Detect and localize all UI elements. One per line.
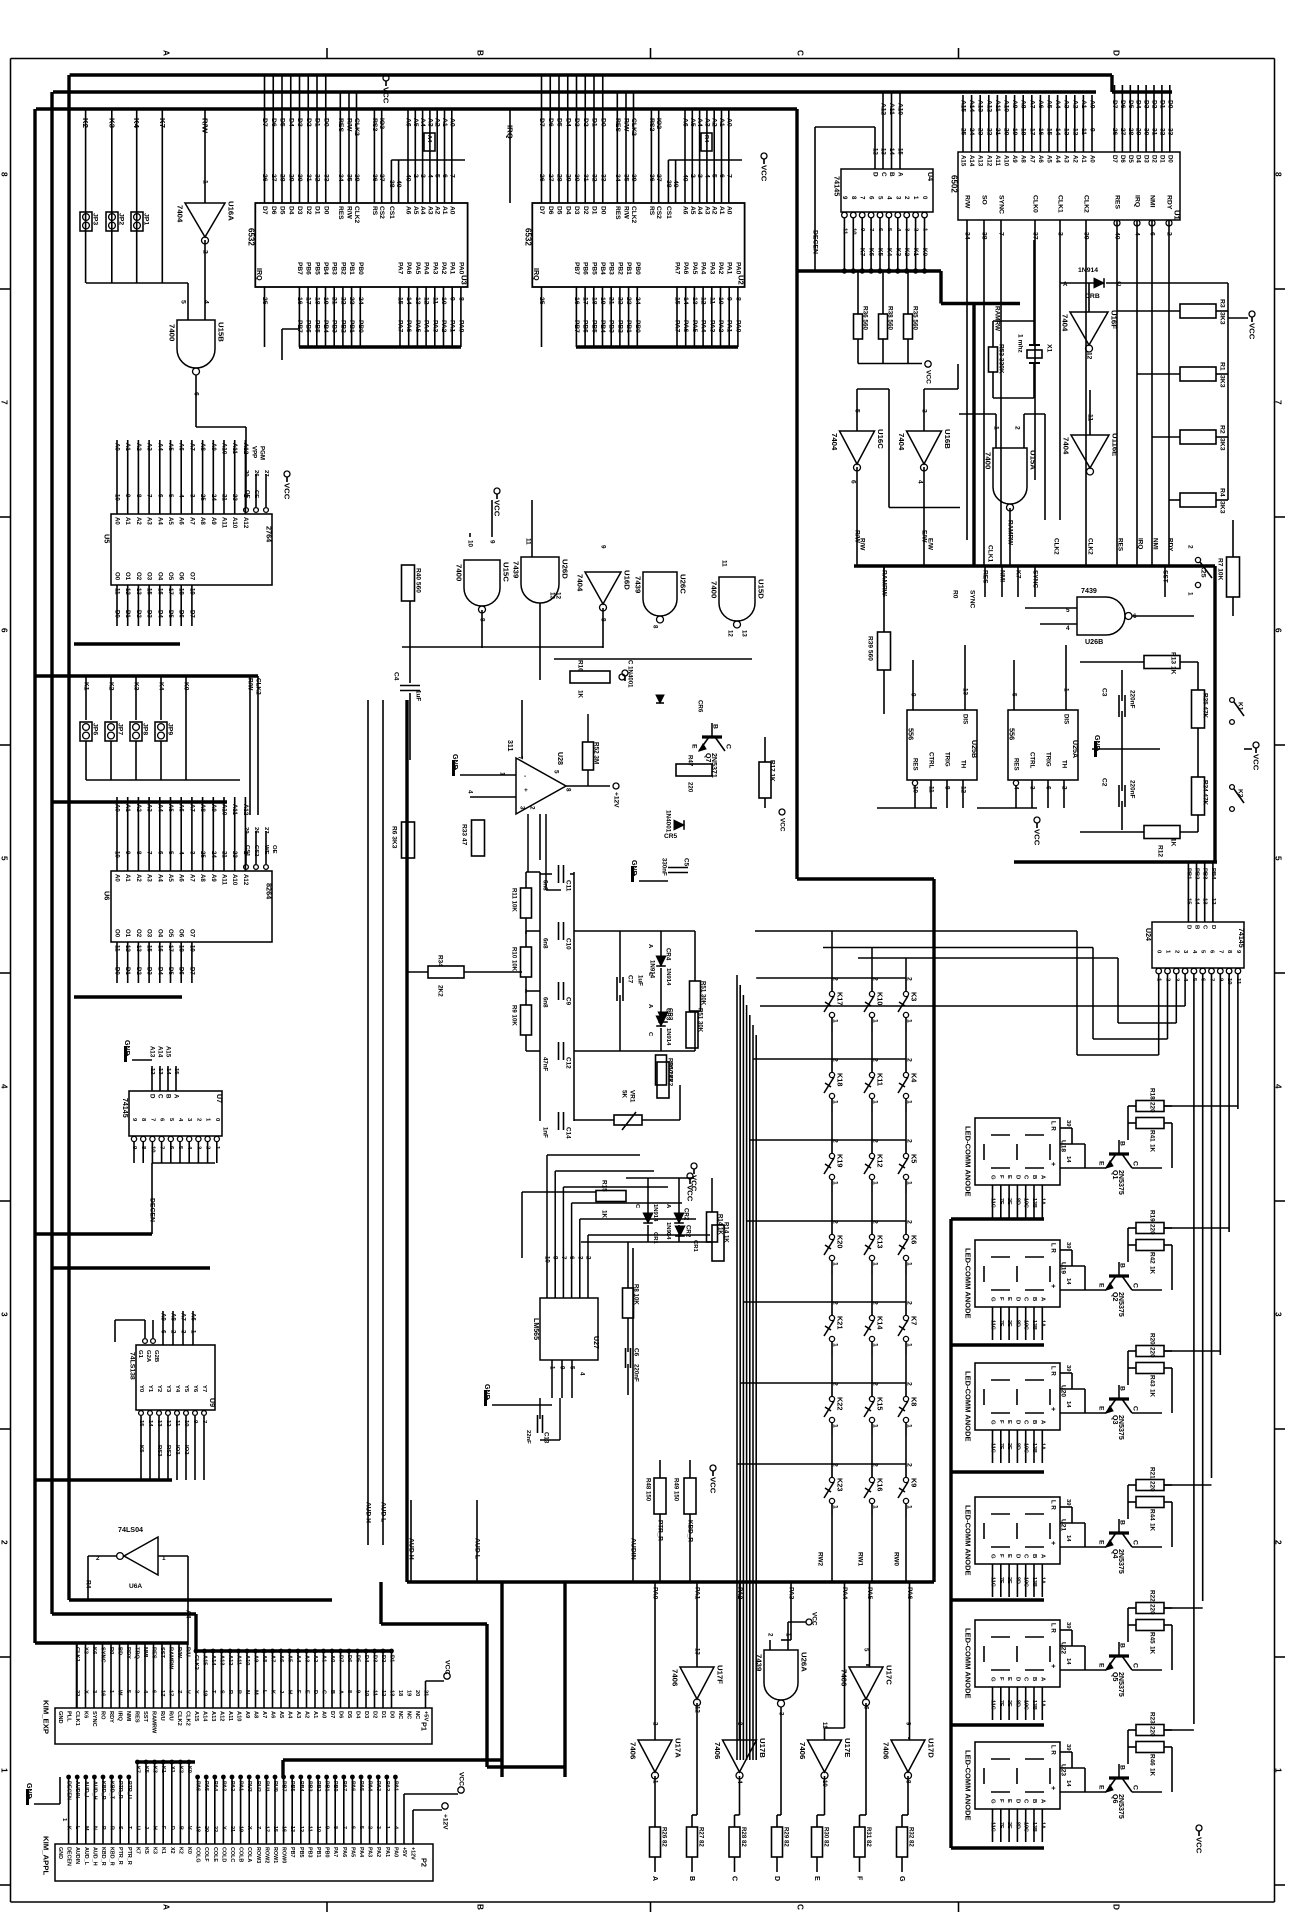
svg-text:VCC: VCC xyxy=(760,165,769,182)
svg-text:R19: R19 xyxy=(1149,1210,1156,1222)
svg-text:+: + xyxy=(1049,1407,1057,1411)
svg-text:B: B xyxy=(329,1690,335,1694)
svg-text:14: 14 xyxy=(165,1068,171,1075)
svg-text:K23: K23 xyxy=(836,1478,845,1491)
svg-text:COLC: COLC xyxy=(229,1847,235,1862)
svg-text:D5: D5 xyxy=(279,118,286,127)
svg-text:F: F xyxy=(998,1175,1004,1179)
svg-text:14: 14 xyxy=(1194,898,1200,905)
svg-text:11: 11 xyxy=(431,297,438,304)
svg-text:PB6: PB6 xyxy=(582,262,589,275)
svg-text:39: 39 xyxy=(630,174,637,182)
svg-text:P: P xyxy=(236,1690,242,1694)
svg-text:X1: X1 xyxy=(169,1766,175,1773)
svg-text:PA3: PA3 xyxy=(708,320,715,333)
svg-text:36: 36 xyxy=(648,174,655,182)
svg-text:K18: K18 xyxy=(836,1073,845,1086)
svg-text:Y: Y xyxy=(193,1690,199,1694)
svg-text:1N914: 1N914 xyxy=(665,1028,671,1046)
svg-text:7F: 7F xyxy=(998,1822,1004,1829)
svg-text:PA0: PA0 xyxy=(457,320,464,333)
svg-text:PB1: PB1 xyxy=(1185,868,1191,880)
svg-text:6502: 6502 xyxy=(950,175,959,193)
svg-text:O3: O3 xyxy=(146,929,153,938)
svg-text:U26C: U26C xyxy=(679,574,688,594)
svg-text:2: 2 xyxy=(585,1256,592,1260)
svg-text:D3: D3 xyxy=(363,1711,369,1718)
svg-text:8D: 8D xyxy=(1014,1700,1020,1707)
svg-text:13: 13 xyxy=(549,592,556,600)
svg-text:COLB: COLB xyxy=(238,1847,244,1862)
svg-text:A1: A1 xyxy=(441,206,448,215)
svg-text:9: 9 xyxy=(905,1722,912,1726)
svg-text:1: 1 xyxy=(162,1555,166,1562)
svg-text:2N5375: 2N5375 xyxy=(1117,1549,1125,1574)
svg-text:A14: A14 xyxy=(210,1655,216,1666)
svg-text:GND: GND xyxy=(1093,735,1101,751)
svg-text:1: 1 xyxy=(872,1019,879,1023)
svg-text:U7: U7 xyxy=(215,1094,223,1103)
svg-text:A12: A12 xyxy=(227,1655,233,1665)
svg-text:12: 12 xyxy=(727,630,734,637)
svg-text:10: 10 xyxy=(183,1420,189,1427)
svg-text:A11: A11 xyxy=(236,1655,242,1665)
svg-text:2: 2 xyxy=(689,174,696,178)
svg-text:D7: D7 xyxy=(188,967,195,975)
svg-text:D: D xyxy=(1014,1677,1020,1681)
svg-text:7: 7 xyxy=(146,851,153,855)
svg-text:1K: 1K xyxy=(1149,1646,1156,1655)
svg-text:KIM_APPL: KIM_APPL xyxy=(42,1836,51,1876)
svg-text:2: 2 xyxy=(0,1540,9,1545)
svg-text:R/U: R/U xyxy=(159,1711,165,1721)
svg-text:R50 2K2: R50 2K2 xyxy=(667,1062,674,1087)
svg-text:A1: A1 xyxy=(312,1711,318,1718)
svg-text:D3: D3 xyxy=(573,118,580,127)
svg-text:23: 23 xyxy=(231,851,238,858)
svg-text:U17E: U17E xyxy=(843,1738,852,1757)
svg-text:O7: O7 xyxy=(188,572,195,581)
svg-text:18: 18 xyxy=(178,588,185,595)
svg-text:RES: RES xyxy=(614,118,621,132)
svg-text:1K: 1K xyxy=(577,690,584,699)
svg-text:PB0: PB0 xyxy=(357,320,364,333)
svg-text:PA1: PA1 xyxy=(449,320,456,333)
svg-text:U15D: U15D xyxy=(757,579,766,599)
svg-text:NC: NC xyxy=(397,1711,403,1719)
svg-text:12: 12 xyxy=(149,1068,155,1075)
svg-text:17: 17 xyxy=(168,1690,174,1696)
svg-text:A2: A2 xyxy=(434,118,441,127)
svg-text:A11: A11 xyxy=(994,155,1001,166)
svg-text:A14: A14 xyxy=(157,1046,164,1058)
svg-text:VCC: VCC xyxy=(444,1660,451,1674)
svg-text:74145: 74145 xyxy=(1237,928,1245,948)
svg-text:A3: A3 xyxy=(703,118,710,127)
svg-text:RDY: RDY xyxy=(1166,195,1173,210)
svg-text:A0: A0 xyxy=(448,118,455,127)
svg-text:+12V: +12V xyxy=(410,1847,416,1860)
svg-text:A0: A0 xyxy=(1089,155,1096,163)
svg-text:CE: CE xyxy=(253,490,259,498)
svg-text:D: D xyxy=(149,1094,156,1099)
svg-text:D7: D7 xyxy=(538,206,545,215)
svg-text:O0: O0 xyxy=(114,929,121,938)
svg-text:U6: U6 xyxy=(103,891,112,900)
svg-text:U116E: U116E xyxy=(1111,433,1120,456)
svg-text:K13: K13 xyxy=(876,1235,885,1248)
svg-text:2: 2 xyxy=(96,1555,100,1562)
svg-text:D5: D5 xyxy=(279,206,286,215)
svg-text:A1: A1 xyxy=(124,874,131,882)
svg-text:R46: R46 xyxy=(1149,1754,1156,1766)
svg-text:556: 556 xyxy=(907,728,916,740)
svg-text:VCC: VCC xyxy=(1195,1837,1204,1854)
svg-text:R47: R47 xyxy=(687,755,694,767)
svg-text:1: 1 xyxy=(384,1826,390,1829)
svg-text:10: 10 xyxy=(440,297,447,305)
svg-text:A11: A11 xyxy=(994,100,1001,112)
svg-text:6n8: 6n8 xyxy=(542,938,549,949)
svg-text:A6: A6 xyxy=(178,874,185,882)
svg-text:K3: K3 xyxy=(152,1847,158,1854)
svg-text:R27 82: R27 82 xyxy=(698,1827,705,1847)
svg-text:PA7: PA7 xyxy=(674,262,681,275)
svg-text:DIS: DIS xyxy=(962,714,969,724)
svg-text:29: 29 xyxy=(287,174,294,182)
svg-text:9: 9 xyxy=(559,1366,566,1370)
svg-text:7406: 7406 xyxy=(671,1669,680,1687)
svg-text:CLK1: CLK1 xyxy=(1057,195,1064,213)
svg-text:E: E xyxy=(1006,1420,1012,1424)
svg-text:AUD L: AUD L xyxy=(474,1538,481,1559)
svg-text:C: C xyxy=(647,1032,653,1037)
svg-text:Y4: Y4 xyxy=(174,1385,180,1393)
svg-text:D7: D7 xyxy=(1111,155,1118,163)
svg-text:1uF: 1uF xyxy=(415,690,422,701)
svg-text:K16: K16 xyxy=(876,1478,885,1491)
svg-text:A7: A7 xyxy=(188,517,195,525)
svg-text:D3: D3 xyxy=(573,206,580,215)
svg-text:E: E xyxy=(1006,1297,1012,1301)
svg-text:K5: K5 xyxy=(877,248,884,257)
svg-text:NMI: NMI xyxy=(1152,538,1159,550)
svg-text:2: 2 xyxy=(1187,545,1194,549)
svg-text:PA3: PA3 xyxy=(431,320,438,333)
svg-text:M: M xyxy=(253,1690,259,1695)
svg-text:6: 6 xyxy=(156,494,163,498)
svg-text:W: W xyxy=(117,1690,123,1696)
svg-text:3K3: 3K3 xyxy=(1219,501,1226,514)
svg-text:R36 560: R36 560 xyxy=(862,306,869,331)
svg-text:D: D xyxy=(1185,925,1191,929)
svg-text:D7: D7 xyxy=(538,118,545,127)
svg-text:7406: 7406 xyxy=(882,1742,891,1760)
svg-text:6: 6 xyxy=(441,174,448,178)
svg-text:6: 6 xyxy=(156,851,163,855)
svg-text:B: B xyxy=(1031,1175,1037,1179)
svg-text:B: B xyxy=(1119,1765,1126,1770)
svg-text:5: 5 xyxy=(863,1648,870,1652)
svg-text:PA5: PA5 xyxy=(414,262,421,275)
svg-text:C: C xyxy=(1117,281,1122,288)
svg-text:K3: K3 xyxy=(133,682,140,691)
svg-text:23: 23 xyxy=(977,128,984,136)
svg-text:PGM: PGM xyxy=(259,446,266,460)
svg-text:21: 21 xyxy=(994,128,1001,136)
svg-text:30: 30 xyxy=(1143,128,1150,136)
svg-text:R/U: R/U xyxy=(168,1711,174,1721)
svg-text:U25A: U25A xyxy=(1071,740,1079,758)
svg-text:5: 5 xyxy=(0,856,9,861)
svg-text:Y0: Y0 xyxy=(138,1385,144,1393)
svg-text:0: 0 xyxy=(921,196,928,200)
svg-text:PA3: PA3 xyxy=(788,1587,795,1600)
svg-text:Z: Z xyxy=(176,1690,182,1694)
svg-text:27: 27 xyxy=(270,174,277,182)
svg-text:A5: A5 xyxy=(412,206,419,215)
svg-text:A4: A4 xyxy=(696,118,703,127)
svg-text:B: B xyxy=(1119,1643,1126,1648)
svg-text:U17A: U17A xyxy=(674,1738,683,1758)
svg-text:17: 17 xyxy=(582,297,589,305)
svg-text:1: 1 xyxy=(549,1366,556,1370)
svg-text:K3: K3 xyxy=(894,248,901,257)
svg-text:39: 39 xyxy=(1065,1242,1071,1249)
svg-text:8: 8 xyxy=(600,618,607,622)
svg-text:26: 26 xyxy=(253,470,259,477)
svg-text:4: 4 xyxy=(1066,625,1070,632)
svg-text:8D: 8D xyxy=(1014,1577,1020,1584)
svg-text:6: 6 xyxy=(151,1690,157,1693)
svg-text:T: T xyxy=(210,1690,216,1694)
svg-text:12: 12 xyxy=(298,1826,304,1832)
svg-text:39: 39 xyxy=(353,174,360,182)
svg-text:20: 20 xyxy=(243,827,249,834)
svg-text:LED-COMM ANODE: LED-COMM ANODE xyxy=(964,1248,973,1319)
svg-text:D5: D5 xyxy=(1127,155,1134,163)
svg-text:18: 18 xyxy=(178,945,185,952)
svg-text:A4: A4 xyxy=(156,804,163,812)
svg-text:R17 1K: R17 1K xyxy=(769,760,776,782)
svg-text:7F: 7F xyxy=(998,1700,1004,1707)
svg-text:Y7: Y7 xyxy=(201,1385,207,1393)
svg-text:S: S xyxy=(219,1690,225,1694)
svg-text:L: L xyxy=(261,1690,267,1694)
svg-text:39: 39 xyxy=(1065,1365,1071,1372)
svg-text:O5: O5 xyxy=(167,929,174,938)
svg-text:15: 15 xyxy=(397,297,404,305)
svg-text:R34: R34 xyxy=(437,955,444,967)
svg-text:C: C xyxy=(796,1904,805,1910)
svg-text:1uF: 1uF xyxy=(637,975,644,986)
svg-text:NC: NC xyxy=(414,1711,420,1719)
svg-text:U17F: U17F xyxy=(716,1665,725,1684)
svg-text:A2: A2 xyxy=(434,206,441,215)
svg-text:A2: A2 xyxy=(711,206,718,215)
svg-text:PA2: PA2 xyxy=(736,1587,743,1600)
svg-text:A12: A12 xyxy=(242,517,249,529)
svg-text:IO2: IO2 xyxy=(655,118,662,129)
svg-text:RS2: RS2 xyxy=(648,118,655,131)
svg-text:2: 2 xyxy=(367,1826,373,1829)
svg-text:KBD_R: KBD_R xyxy=(100,1847,106,1866)
svg-text:PB3: PB3 xyxy=(331,320,338,333)
svg-text:+5V: +5V xyxy=(401,1847,407,1857)
svg-text:15: 15 xyxy=(138,1420,144,1427)
svg-text:GND: GND xyxy=(123,1040,131,1056)
svg-text:F: F xyxy=(856,1876,864,1881)
svg-text:A5: A5 xyxy=(167,874,174,882)
svg-text:A10: A10 xyxy=(244,1655,250,1665)
svg-text:R16: R16 xyxy=(577,660,584,672)
svg-text:A1: A1 xyxy=(321,1655,327,1662)
svg-text:COLG: COLG xyxy=(195,1847,201,1863)
svg-text:31: 31 xyxy=(305,174,312,182)
svg-text:11: 11 xyxy=(174,1420,180,1427)
svg-text:Y2: Y2 xyxy=(156,1385,162,1393)
svg-text:R/W: R/W xyxy=(201,118,210,134)
svg-text:CLK1: CLK1 xyxy=(987,545,994,563)
svg-text:2: 2 xyxy=(872,1220,879,1224)
svg-text:4: 4 xyxy=(579,1372,586,1376)
svg-text:LED-COMM ANODE: LED-COMM ANODE xyxy=(964,1505,973,1576)
svg-text:COLA: COLA xyxy=(246,1847,252,1862)
svg-text:2: 2 xyxy=(832,1220,839,1224)
svg-text:A12: A12 xyxy=(242,874,249,886)
svg-text:A4: A4 xyxy=(156,517,163,525)
svg-text:CLK2: CLK2 xyxy=(185,1711,191,1726)
svg-text:VCC: VCC xyxy=(458,1772,465,1786)
svg-text:D1: D1 xyxy=(1158,100,1165,109)
svg-text:74LS138: 74LS138 xyxy=(129,1352,136,1380)
svg-text:PA4: PA4 xyxy=(841,1587,848,1600)
svg-text:P: P xyxy=(100,1826,106,1830)
svg-text:R29 82: R29 82 xyxy=(783,1827,790,1847)
svg-text:A: A xyxy=(647,944,653,949)
svg-text:C: C xyxy=(1023,1799,1029,1804)
svg-text:A7: A7 xyxy=(180,1313,187,1321)
svg-text:PA3: PA3 xyxy=(220,1781,226,1791)
svg-text:K9: K9 xyxy=(910,1478,919,1487)
svg-text:1: 1 xyxy=(832,1262,839,1266)
svg-text:11: 11 xyxy=(114,945,121,952)
svg-text:D: D xyxy=(1210,925,1216,929)
svg-text:PA6: PA6 xyxy=(341,1847,347,1857)
svg-text:A1: A1 xyxy=(1080,155,1087,163)
svg-text:5K: 5K xyxy=(621,1090,628,1099)
svg-text:13: 13 xyxy=(741,630,748,637)
svg-text:CR2: CR2 xyxy=(683,1208,690,1221)
svg-text:7406: 7406 xyxy=(629,1742,638,1760)
svg-text:R3: R3 xyxy=(1219,299,1226,308)
svg-text:A9: A9 xyxy=(210,804,217,812)
svg-text:O1: O1 xyxy=(124,929,131,938)
svg-text:4: 4 xyxy=(178,494,185,498)
svg-text:10: 10 xyxy=(850,228,856,235)
svg-text:7404: 7404 xyxy=(897,433,906,451)
svg-text:+5V: +5V xyxy=(423,1711,429,1721)
svg-text:11: 11 xyxy=(1080,128,1087,135)
svg-text:GND: GND xyxy=(57,1711,63,1724)
svg-text:E/W: E/W xyxy=(927,538,934,550)
svg-text:AUD H: AUD H xyxy=(365,1502,372,1523)
svg-text:2: 2 xyxy=(832,1301,839,1305)
svg-text:K2: K2 xyxy=(903,248,910,257)
svg-text:6: 6 xyxy=(193,392,200,396)
svg-text:A7: A7 xyxy=(188,804,195,812)
svg-text:A10: A10 xyxy=(236,1711,242,1721)
svg-text:D1: D1 xyxy=(591,118,598,127)
svg-text:25: 25 xyxy=(960,128,967,136)
svg-text:M: M xyxy=(83,1826,89,1831)
svg-text:D2: D2 xyxy=(372,1711,378,1718)
svg-text:PB3: PB3 xyxy=(306,1847,312,1858)
svg-text:18: 18 xyxy=(397,1690,403,1696)
svg-text:1: 1 xyxy=(832,1181,839,1185)
svg-text:CLK2: CLK2 xyxy=(630,118,637,136)
svg-text:D5: D5 xyxy=(556,206,563,215)
svg-text:A13: A13 xyxy=(977,100,984,112)
svg-text:U22: U22 xyxy=(1060,1642,1067,1654)
svg-text:22: 22 xyxy=(985,128,992,136)
svg-text:38: 38 xyxy=(665,180,672,188)
svg-text:2N5371: 2N5371 xyxy=(710,753,718,778)
svg-text:SYNC: SYNC xyxy=(100,1647,106,1663)
svg-text:C7: C7 xyxy=(627,975,634,984)
svg-text:PB1: PB1 xyxy=(625,262,632,275)
svg-text:C: C xyxy=(725,744,732,749)
svg-text:25: 25 xyxy=(538,297,545,305)
svg-text:A0: A0 xyxy=(448,206,455,215)
svg-text:PA3: PA3 xyxy=(375,1781,381,1791)
svg-text:2: 2 xyxy=(906,1139,913,1143)
svg-text:PA2: PA2 xyxy=(717,262,724,275)
svg-text:6: 6 xyxy=(1149,232,1156,236)
svg-text:E: E xyxy=(1006,1175,1012,1179)
svg-text:1: 1 xyxy=(832,1019,839,1023)
svg-text:5: 5 xyxy=(877,196,884,200)
svg-text:PA7: PA7 xyxy=(332,1847,338,1857)
svg-text:8: 8 xyxy=(944,786,951,790)
svg-text:R31 82: R31 82 xyxy=(865,1827,872,1847)
svg-text:A4: A4 xyxy=(185,1610,192,1619)
svg-text:31: 31 xyxy=(582,174,589,182)
svg-text:AUDIN: AUDIN xyxy=(74,1781,80,1798)
svg-text:R20: R20 xyxy=(1149,1333,1156,1345)
svg-text:JP8: JP8 xyxy=(142,723,149,735)
svg-text:U23: U23 xyxy=(1060,1764,1067,1776)
svg-text:2: 2 xyxy=(412,174,419,178)
svg-text:C2: C2 xyxy=(1101,778,1108,787)
svg-text:CR1: CR1 xyxy=(692,1240,698,1253)
svg-text:A3: A3 xyxy=(426,206,433,215)
svg-text:K7: K7 xyxy=(859,248,866,257)
svg-text:220nF: 220nF xyxy=(633,1364,640,1382)
svg-text:PB6: PB6 xyxy=(305,262,312,275)
svg-text:PB1: PB1 xyxy=(315,1847,321,1858)
svg-text:PB1: PB1 xyxy=(348,320,355,333)
svg-text:D1: D1 xyxy=(124,967,131,975)
svg-text:PB1: PB1 xyxy=(348,262,355,275)
svg-text:2: 2 xyxy=(906,1301,913,1305)
svg-text:15: 15 xyxy=(272,1826,278,1832)
svg-text:O7: O7 xyxy=(188,929,195,938)
svg-text:NMI: NMI xyxy=(999,570,1006,582)
svg-text:A2: A2 xyxy=(135,874,142,882)
svg-text:R49 150: R49 150 xyxy=(673,1478,680,1502)
svg-text:D7: D7 xyxy=(261,118,268,127)
